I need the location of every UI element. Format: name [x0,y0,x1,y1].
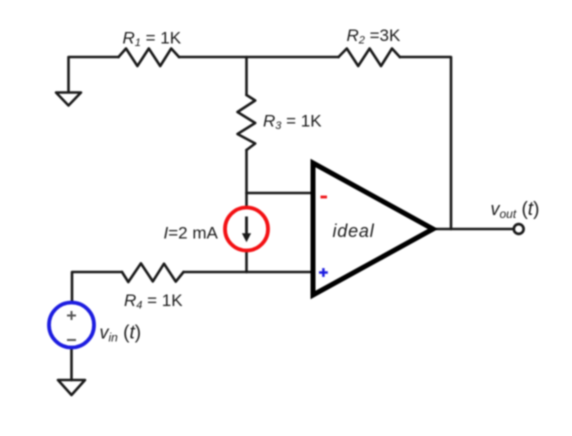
resistor R4 [122,263,184,282]
current source I [225,208,268,251]
op-amp minus sign [321,196,328,199]
resistor R3 [238,95,256,150]
voltage source vin [49,303,94,348]
vin plus [67,311,76,320]
wire top-left from ground corner to R1 [69,57,119,92]
svg-text:ideal: ideal [333,221,375,241]
svg-text:I=2 mA: I=2 mA [164,224,219,243]
wire R4 to op-amp noninverting input [184,271,312,274]
op-amp plus sign [319,268,328,277]
svg-text:R3 = 1K: R3 = 1K [263,112,322,133]
vin minus [67,339,76,341]
op-amp U1 ideal [313,163,433,295]
wire junction down to R3 [245,57,248,95]
svg-text:vin (t): vin (t) [100,323,142,345]
ground top-left [56,93,81,106]
output terminal [514,224,524,234]
wire R2 to right corner down to output node [400,57,451,229]
wire to op-amp inverting input [247,192,312,195]
wire vin bottom to ground [70,348,73,381]
current source arrow [245,217,248,236]
wire current source bottom to plus rail [245,251,248,273]
svg-text:R2 =3K: R2 =3K [347,26,402,47]
wire op-amp output to terminal [433,228,514,231]
svg-text:R1 = 1K: R1 = 1K [123,29,182,50]
resistor R2 [339,49,400,67]
wire R1 to junction to R2 [179,56,339,59]
svg-text:vout (t): vout (t) [491,199,540,221]
resistor R1 [119,49,180,67]
svg-text:R4 = 1K: R4 = 1K [124,291,183,312]
wire vin corner to R4 [72,272,122,303]
wire R3 to current source top [245,150,248,208]
ground below vin [58,380,85,395]
